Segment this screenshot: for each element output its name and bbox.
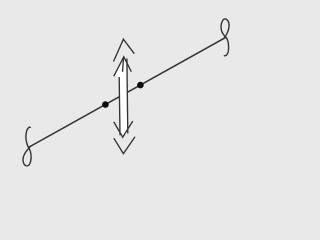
arrow inner bottom chevron [114,121,133,137]
arrow outer bottom chevron [114,137,135,154]
arrow inner top chevron [114,57,132,76]
arrow top stub [123,57,124,72]
arrow shaft left line [118,77,121,135]
left end curl (loop) [23,127,31,166]
arrow shaft right line [126,59,129,134]
arrow shaft interior (white fill occluding string) [115,58,128,135]
right end curl (loop) [221,19,229,56]
arrow outer top chevron [114,39,135,61]
string (diagonal line) [29,37,226,147]
dot (right particle) [137,82,144,89]
dot (left particle) [102,101,109,108]
